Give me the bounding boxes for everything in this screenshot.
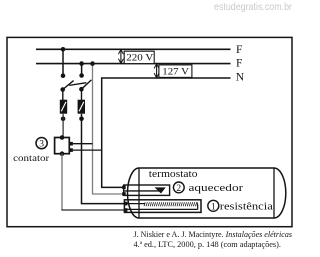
svg-text:estudegratis.com.br: estudegratis.com.br bbox=[214, 1, 292, 13]
circled label 3 bbox=[36, 138, 47, 150]
tank boiler outline bbox=[128, 168, 286, 218]
svg-text:contator: contator bbox=[13, 153, 50, 164]
svg-text:aquecedor: aquecedor bbox=[189, 183, 244, 194]
resistance heating element box bbox=[124, 200, 201, 213]
switch mechanical link bbox=[69, 83, 86, 86]
junction node on bus F2 bbox=[79, 61, 84, 66]
junction node gray wire on bus F2 bbox=[90, 61, 95, 66]
wire thermostat feed from bus F2 (gray) bbox=[93, 64, 124, 194]
svg-text:1: 1 bbox=[211, 202, 216, 212]
node below fuse F2 bbox=[79, 117, 84, 122]
wire bus F1 bbox=[36, 48, 231, 50]
wire drop phase A from bus F1 bbox=[62, 49, 64, 75]
switch S pole 1 bbox=[60, 73, 73, 91]
svg-text:resistência: resistência bbox=[220, 202, 274, 213]
circled label 1 bbox=[208, 200, 219, 212]
wire fuse1 to contactor bbox=[62, 114, 64, 138]
thermostat box bbox=[124, 185, 170, 195]
dimension arrow 127V bbox=[154, 64, 159, 78]
svg-text:127 V: 127 V bbox=[162, 66, 189, 77]
dimension arrow 220V bbox=[118, 49, 123, 63]
border frame bbox=[7, 37, 292, 226]
svg-text:220 V: 220 V bbox=[126, 53, 153, 64]
fuse F1 bbox=[60, 100, 67, 114]
svg-text:N: N bbox=[236, 71, 245, 83]
resistance zigzag element bbox=[144, 202, 198, 206]
svg-text:3: 3 bbox=[39, 140, 44, 150]
svg-text:termostato: termostato bbox=[149, 169, 198, 180]
wire switch1 to fuse1 bbox=[62, 90, 64, 101]
thermostat terminal 2 bbox=[122, 192, 126, 196]
wire bus N with drop to thermostat bbox=[102, 78, 231, 187]
wire phase B down to resistance bbox=[82, 114, 127, 204]
svg-text:F: F bbox=[236, 57, 242, 69]
contactor coil tab 1 bbox=[69, 142, 92, 146]
thermostat terminal 1 bbox=[122, 186, 126, 190]
resistance terminal 2 bbox=[124, 208, 128, 212]
wire switch2 to fuse2 bbox=[81, 89, 83, 100]
svg-text:F: F bbox=[236, 44, 242, 56]
junction node on bus F1 bbox=[61, 47, 66, 52]
svg-text:4.ª ed., LTC, 2000, p. 148 (co: 4.ª ed., LTC, 2000, p. 148 (com adaptaçõ… bbox=[134, 240, 282, 249]
svg-text:2: 2 bbox=[176, 184, 181, 194]
value label 220 V bbox=[124, 51, 154, 64]
contactor coil tab 2 bbox=[69, 148, 101, 152]
wire contactor output to resistance (gray drop) bbox=[61, 154, 126, 210]
circled label 2 bbox=[173, 182, 184, 194]
node below fuse F1 bbox=[61, 117, 66, 122]
value label 127 V bbox=[159, 65, 192, 78]
fuse F2 bbox=[78, 100, 85, 114]
wire bus F2 bbox=[36, 63, 231, 65]
resistance terminal 1 bbox=[124, 202, 128, 206]
wire drop phase B from bus F2 bbox=[81, 64, 83, 76]
contactor U box bbox=[55, 135, 70, 156]
switch S pole 2 bbox=[79, 73, 91, 91]
svg-text:J. Niskier e A. J. Macintyre.: J. Niskier e A. J. Macintyre. Instalaçõe… bbox=[134, 230, 293, 239]
